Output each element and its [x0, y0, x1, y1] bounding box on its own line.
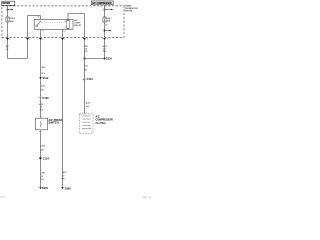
A/C pressure switch box	[36, 118, 48, 130]
fuse F8	[6, 17, 9, 22]
svg-text:S301: S301	[42, 186, 49, 190]
splice square on wire 5	[84, 58, 86, 60]
svg-text:DG: DG	[86, 106, 90, 108]
arrow right stub C	[110, 30, 112, 32]
wire fuse2 down	[104, 22, 106, 37]
svg-text:DG: DG	[41, 150, 45, 152]
splice S112 dot	[40, 77, 42, 79]
connector arrow wire5	[83, 38, 86, 40]
svg-text:40A: 40A	[106, 19, 110, 22]
svg-text:DG: DG	[84, 69, 88, 71]
battery B+ header box	[2, 1, 15, 5]
wire stub right of battery junction	[8, 9, 12, 11]
splice branch wire	[85, 58, 105, 60]
arrow right stub A	[12, 9, 14, 11]
wire 4 below PDC	[62, 40, 64, 188]
connector arrow wire4	[61, 38, 64, 40]
svg-text:S300: S300	[65, 186, 72, 190]
clutch internal rows	[82, 115, 90, 117]
svg-text:DG: DG	[42, 73, 46, 75]
svg-text:DG: DG	[84, 51, 88, 53]
svg-text:C126: C126	[42, 96, 49, 100]
relay coil	[67, 21, 70, 29]
wire 5 below PDC	[84, 40, 86, 114]
wire 2 inside PDC	[27, 16, 29, 39]
svg-text:DISTRIBUTION: DISTRIBUTION	[125, 8, 138, 10]
svg-text:DG: DG	[40, 109, 44, 111]
svg-text:DG: DG	[41, 179, 45, 181]
wire fuse down to PDC edge	[7, 22, 9, 37]
connector arrow wire1	[6, 38, 9, 40]
wire header to fuse2	[104, 5, 106, 17]
svg-text:S310: S310	[106, 56, 113, 60]
wire3 end splice dot	[39, 187, 41, 189]
svg-text:A/C COMPRESSOR: A/C COMPRESSOR	[92, 2, 112, 5]
wire 4 to PDC edge	[62, 32, 64, 38]
svg-text:C110: C110	[87, 77, 94, 81]
relay U1 box	[34, 19, 73, 29]
header box U2 (top middle)	[92, 1, 114, 5]
PDC dashed box (power distribution center)	[2, 6, 124, 38]
svg-text:DG: DG	[41, 89, 45, 91]
wire 3 below switch	[40, 130, 42, 189]
wire 3 below PDC	[40, 40, 42, 118]
connector arrow wire2	[26, 38, 29, 40]
svg-text:8W-42-2: 8W-42-2	[0, 197, 6, 199]
svg-text:BK: BK	[62, 179, 66, 181]
relay pin 87 stub	[40, 30, 42, 32]
svg-text:5: 5	[64, 39, 65, 41]
connector arrow wire6	[103, 38, 106, 40]
node A (battery junction)	[7, 9, 9, 11]
svg-text:C124: C124	[43, 156, 50, 160]
svg-text:CLUTCH: CLUTCH	[96, 122, 106, 125]
wire 1 below PDC	[7, 40, 9, 59]
relay switch lever	[36, 25, 38, 27]
arrow right stub B	[111, 9, 113, 11]
svg-text:CENTER: CENTER	[125, 11, 133, 13]
svg-text:4: 4	[42, 39, 43, 41]
svg-text:FUSE 8: FUSE 8	[10, 18, 16, 20]
wire 2 up into PDC	[27, 40, 29, 59]
wire4 end splice dot	[61, 187, 63, 189]
wire 6 below PDC	[104, 40, 106, 59]
wire battery down to fuse	[7, 5, 9, 17]
switch symbol inside	[40, 121, 41, 127]
node B junction dot	[104, 30, 106, 32]
inline connector C126 tick	[38, 97, 39, 99]
inline connector square	[39, 157, 41, 159]
fuse F3	[103, 17, 106, 22]
svg-text:DG: DG	[103, 51, 107, 53]
connector arrow wire3	[39, 38, 42, 40]
wire 3 to PDC edge	[40, 31, 42, 37]
fuse 2 feed: junction dot	[104, 9, 106, 11]
svg-text:40A: 40A	[10, 20, 14, 23]
wire corner horizontal	[8, 58, 28, 60]
stub right of fuse2 junction	[105, 9, 112, 11]
coil bottom pin stub	[62, 30, 64, 32]
svg-text:SWITCH: SWITCH	[48, 120, 58, 124]
svg-text:A/C: A/C	[74, 19, 78, 22]
stub right of node B	[105, 30, 110, 32]
relay linkage dashed	[39, 22, 66, 24]
coil top wire loop	[68, 14, 85, 38]
svg-text:2: 2	[29, 39, 30, 41]
svg-text:BATTERY: BATTERY	[3, 2, 11, 5]
svg-text:RELAY: RELAY	[74, 24, 82, 27]
A/C clutch dashed box	[79, 114, 93, 133]
svg-text:POWER: POWER	[125, 5, 132, 7]
relay pin 30 stub	[40, 16, 42, 20]
svg-text:S112: S112	[42, 76, 48, 80]
splice S310 dot	[104, 58, 106, 60]
svg-text:8W - 42: 8W - 42	[143, 197, 152, 199]
inline connector C110 ticks	[83, 78, 84, 80]
